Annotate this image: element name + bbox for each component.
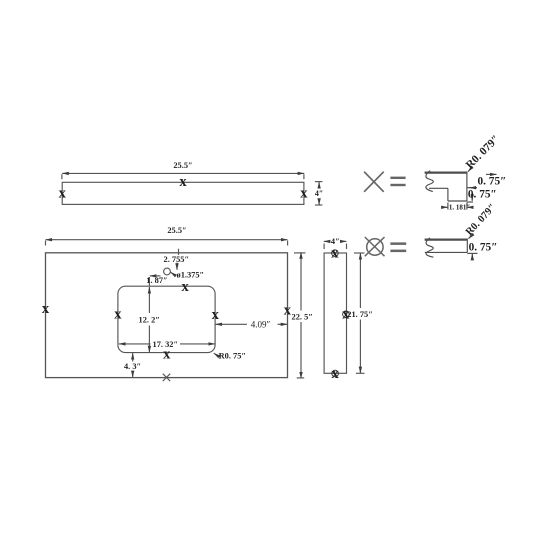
svg-text:1. 181″: 1. 181″ — [449, 203, 471, 211]
svg-text:x: x — [181, 279, 189, 295]
svg-text:0. 75″: 0. 75″ — [478, 176, 507, 188]
svg-text:x: x — [179, 174, 187, 190]
svg-text:4″: 4″ — [315, 189, 323, 198]
svg-text:0. 75″: 0. 75″ — [468, 188, 497, 200]
svg-text:x: x — [114, 307, 122, 323]
svg-text:25.5″: 25.5″ — [173, 161, 192, 170]
svg-text:0. 75″: 0. 75″ — [469, 241, 498, 253]
svg-text:x: x — [42, 301, 50, 317]
svg-text:17. 32″: 17. 32″ — [153, 340, 179, 349]
svg-text:1. 87″: 1. 87″ — [146, 276, 167, 285]
svg-text:R0. 75″: R0. 75″ — [219, 352, 246, 361]
svg-text:x: x — [300, 186, 308, 202]
svg-text:x: x — [163, 347, 171, 363]
svg-text:x: x — [59, 186, 67, 202]
svg-text:4″: 4″ — [331, 237, 340, 246]
svg-text:22. 5″: 22. 5″ — [292, 312, 313, 321]
svg-text:x: x — [212, 307, 220, 323]
svg-text:ø1.375″: ø1.375″ — [177, 271, 205, 280]
svg-text:2. 755″: 2. 755″ — [164, 255, 190, 264]
svg-text:R0. 079″: R0. 079″ — [464, 133, 502, 171]
svg-text:12. 2″: 12. 2″ — [139, 315, 160, 324]
svg-text:25.5″: 25.5″ — [167, 226, 186, 235]
svg-text:21. 75″: 21. 75″ — [347, 310, 373, 319]
svg-text:4.09″: 4.09″ — [251, 319, 271, 329]
svg-text:4. 3″: 4. 3″ — [124, 362, 141, 371]
